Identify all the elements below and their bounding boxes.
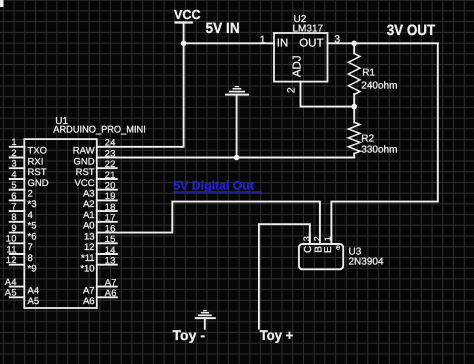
U1 pin A5 [10,296,25,298]
svg-text:5: 5 [11,180,17,190]
U1 pin 5 (2) [10,189,25,191]
svg-text:12: 12 [84,242,95,253]
svg-text:Toy +: Toy + [260,327,293,343]
svg-text:RXI: RXI [28,156,44,167]
wire GND net: U1 pin 23 to R2 bottom [99,157,354,159]
svg-text:A5: A5 [5,288,17,298]
junction: VCC node [181,41,187,47]
ground symbol (Toy -) [204,318,206,329]
svg-text:11: 11 [6,244,16,254]
svg-text:E: E [323,246,334,253]
svg-text:A2: A2 [83,199,95,210]
IC U1 ARDUINO_PRO_MINI body [24,139,97,308]
svg-text:1: 1 [11,137,17,147]
svg-text:OUT: OUT [299,37,323,49]
U1 pin 4 (GND) [10,178,25,180]
U3 pin stub C [309,234,311,244]
svg-text:RAW: RAW [73,146,95,157]
svg-text:2N3904: 2N3904 [349,257,384,268]
svg-text:VCC: VCC [75,178,95,189]
svg-text:e: e [336,242,340,251]
svg-text:13: 13 [105,256,116,266]
svg-text:A1: A1 [83,210,95,221]
resistor R1 240ohm [353,43,355,53]
svg-text:*9: *9 [28,264,37,275]
svg-text:8: 8 [11,212,17,222]
svg-text:18: 18 [105,202,116,212]
U1 pin 7 (4) [10,210,25,212]
wire VCC node to U2 IN pin 1 [184,42,274,44]
wire U2 OUT pin 3 to 3V OUT rail [328,42,438,44]
U1 pin 6 (*3) [10,199,25,201]
U1 pin 24 (RAW) [97,146,99,148]
U1 pin 21 (VCC) [97,178,117,180]
U1 pin 10 (7) [10,242,25,244]
U1 pin 23 (GND) [97,157,99,159]
svg-text:RST: RST [76,167,95,178]
svg-text:7: 7 [28,242,33,253]
svg-text:*6: *6 [28,231,37,242]
svg-text:*10: *10 [80,264,94,275]
U1 pin 20 (A3) [97,189,117,191]
junction: U2 OUT node [351,41,357,47]
svg-text:2: 2 [312,236,322,241]
U1 pin A7 [97,286,117,288]
U1 pin 8 (*5) [10,221,25,223]
U1 pin A4 [10,286,25,288]
U1 pin 1 (TXO) [10,146,25,148]
svg-text:7: 7 [11,202,17,212]
U1 pin 11 (8) [10,253,25,255]
svg-text:A5: A5 [28,296,40,307]
svg-text:10: 10 [6,234,17,244]
svg-text:A6: A6 [83,296,95,307]
wire VCC node down to U1 pin 24 RAW [99,43,184,147]
U1 pin 12 (*9) [10,264,25,266]
U1 pin 16 (13) [97,232,99,234]
svg-text:R2: R2 [361,133,374,144]
svg-text:14: 14 [105,245,116,255]
svg-text:240ohm: 240ohm [361,80,397,91]
svg-text:A3: A3 [83,189,95,200]
U1 pin 17 (A0) [97,221,117,223]
U1 pin 18 (A1) [97,210,117,212]
svg-text:IN: IN [277,37,289,49]
svg-text:5V IN: 5V IN [206,20,240,37]
U1 pin 14 (*11) [97,253,117,255]
svg-text:5V Digital Out: 5V Digital Out [173,179,254,193]
svg-text:1: 1 [260,34,266,46]
svg-text:22: 22 [105,159,116,169]
svg-text:3V OUT: 3V OUT [387,22,436,39]
svg-text:13: 13 [84,231,95,242]
junction: ADJ divider node [351,104,357,110]
transistor U3 2N3904 body [299,244,343,269]
svg-text:ARDUINO_PRO_MINI: ARDUINO_PRO_MINI [53,125,146,136]
svg-text:1: 1 [323,236,333,241]
svg-text:3: 3 [11,159,17,169]
svg-text:20: 20 [105,181,116,191]
svg-text:A0: A0 [83,221,95,232]
svg-text:GND: GND [73,156,94,167]
svg-text:2: 2 [28,189,33,200]
svg-text:4: 4 [11,169,17,179]
svg-text:330ohm: 330ohm [361,144,397,155]
wire 3V OUT rail down to U3 emitter [331,43,437,244]
svg-text:2: 2 [11,148,17,158]
svg-text:15: 15 [105,234,116,244]
svg-text:LM317: LM317 [293,23,324,34]
svg-text:Toy -: Toy - [173,327,206,343]
svg-text:RST: RST [28,167,47,178]
svg-text:A7: A7 [105,277,117,287]
U1 pin 22 (RST) [97,167,117,169]
wire U3 collector to Toy + [259,224,310,329]
svg-text:21: 21 [105,170,116,180]
U1 pin 9 (*6) [10,232,25,234]
U1 pin 15 (12) [97,242,117,244]
svg-text:9: 9 [11,223,17,233]
U1 pin 3 (RST) [10,167,25,169]
svg-text:6: 6 [11,191,17,201]
svg-text:8: 8 [28,253,33,264]
junction: GND wire / ground symbol [234,155,240,161]
svg-text:*11: *11 [81,253,95,264]
svg-text:A6: A6 [105,288,117,298]
svg-text:A7: A7 [83,285,95,296]
svg-text:4: 4 [28,210,33,221]
svg-text:2: 2 [286,87,298,93]
svg-text:GND: GND [28,178,49,189]
ground symbol (upper) [236,95,238,158]
U1 pin 2 (RXI) [10,157,25,159]
resistor R2 330ohm [353,107,355,123]
svg-text:*5: *5 [28,221,37,232]
wire U2 ADJ pin 2 to divider node [301,82,355,107]
svg-text:A4: A4 [5,277,17,287]
svg-text:TXO: TXO [28,146,48,157]
wire net 5V Digital Out: U1 pin 16 to Q1 base [99,202,320,244]
svg-text:A4: A4 [28,285,40,296]
svg-text:12: 12 [6,255,17,265]
U1 pin A6 [97,296,117,298]
artifact: white fleck top-left corner [0,0,4,7]
U1 pin 19 (A2) [97,199,117,201]
svg-text:17: 17 [105,213,116,223]
svg-text:ADJ: ADJ [291,55,303,77]
svg-text:VCC: VCC [174,7,201,22]
U1 pin 13 (*10) [97,264,117,266]
regulator U2 LM317 body [274,33,328,82]
svg-text:*3: *3 [28,199,37,210]
svg-text:19: 19 [105,191,116,201]
svg-text:R1: R1 [362,67,375,78]
